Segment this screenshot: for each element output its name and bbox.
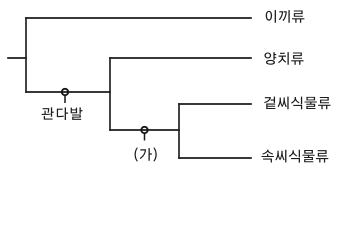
- wire root stub: [8, 57, 26, 59]
- branch line to 속씨식물류: [179, 157, 251, 159]
- branch line to 겉씨식물류: [179, 103, 251, 105]
- label 속씨식물류: [262, 150, 329, 163]
- branch line to 이끼류: [26, 17, 251, 19]
- wire trunk V3: [178, 104, 180, 158]
- label 양치류: [264, 52, 303, 65]
- branch line to 양치류: [110, 57, 251, 59]
- node circle 관다발 (vascular bundle gain): [62, 89, 68, 103]
- wire node1 horizontal: [26, 91, 110, 93]
- label 관다발: [42, 107, 83, 120]
- label 이끼류: [266, 10, 305, 23]
- wire node2 horizontal: [110, 129, 179, 131]
- wire trunk V1: [25, 18, 27, 92]
- wire trunk V2: [109, 58, 111, 130]
- label 겉씨식물류: [264, 97, 330, 110]
- label (가): [135, 147, 157, 161]
- node circle (가): [141, 127, 147, 141]
